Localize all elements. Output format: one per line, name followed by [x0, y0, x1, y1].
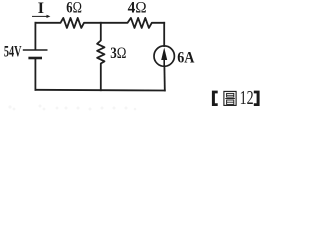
svg-text:3Ω: 3Ω [110, 45, 126, 62]
svg-text:54V: 54V [4, 44, 22, 61]
svg-text:4Ω: 4Ω [128, 0, 147, 17]
svg-text:6Ω: 6Ω [66, 0, 82, 17]
svg-text:12: 12 [240, 87, 254, 109]
svg-text:6A: 6A [177, 50, 195, 67]
svg-text:I: I [38, 0, 44, 17]
